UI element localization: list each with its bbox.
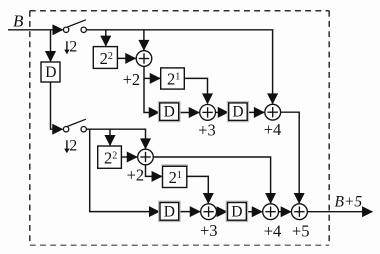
svg-text:D: D: [45, 64, 56, 81]
wire junction drop to delay D (left column): [50, 30, 52, 61]
svg-text:D: D: [164, 204, 175, 221]
svg-text:B+5: B+5: [335, 193, 363, 210]
svg-text:D: D: [232, 104, 243, 121]
dashed boundary box: [30, 11, 329, 245]
block 2^2 (lower): [98, 146, 122, 168]
label downsample 2 (bottom): [64, 138, 77, 155]
label downsample 2 (top): [64, 39, 77, 56]
wire 2^1 output right and down into adder +3 (row 1): [184, 78, 207, 103]
wire adder +3 to D (bottom): [217, 211, 227, 213]
wire 2^2 output to adder +2 (upper): [117, 57, 135, 59]
wire long drop from S2 line down to bottom D row: [90, 129, 159, 211]
wire D to adder +4 (row 1): [247, 111, 264, 113]
adder +2 (upper): [136, 51, 152, 67]
wire output B+5: [307, 211, 372, 213]
wire adder +4 to adder +5 (bottom): [279, 211, 291, 213]
wire adder +2 (lower) output down into block 2^1 (lower): [146, 165, 162, 177]
svg-text:D: D: [164, 104, 175, 121]
adder +4 (bottom row): [263, 204, 279, 220]
block 2^1 (lower): [161, 165, 188, 188]
block 2^1 (upper): [161, 68, 185, 89]
adder +3 (row 1): [200, 105, 216, 121]
wire drop into block 2^2 (upper): [105, 30, 107, 46]
delay D (bottom row right): [226, 201, 247, 221]
svg-text:2: 2: [69, 138, 77, 155]
adder +5 (bottom row): [292, 204, 308, 220]
svg-text:+3: +3: [200, 221, 218, 240]
delay D (bottom row left): [159, 201, 180, 221]
wire adder +2 output down to D row 1: [144, 66, 159, 112]
svg-text:D: D: [231, 204, 242, 221]
wire adder +4 output right and down into adder +5: [281, 112, 300, 203]
block 2^2 (upper): [93, 47, 117, 69]
adder +2 (lower): [138, 149, 154, 165]
wire 2^2 output to adder +2 (lower): [121, 156, 136, 158]
adder +3 (bottom row): [201, 204, 217, 220]
svg-text:+2: +2: [127, 166, 145, 185]
svg-text:+3: +3: [198, 120, 216, 139]
wire delay D output down to switch S2: [51, 82, 63, 129]
wire input B: [8, 29, 63, 31]
adder +4 (row 1): [265, 104, 281, 120]
svg-text:+5: +5: [292, 221, 310, 240]
switch S2 (downsampler, bottom): [63, 119, 86, 132]
wire drop into adder +2 (upper): [143, 30, 145, 50]
wire adder +2 (lower) output right and down into adder +4 (bottom): [153, 157, 270, 203]
svg-text:+4: +4: [264, 120, 282, 139]
delay D (row 1 right): [227, 102, 248, 122]
svg-text:+2: +2: [123, 70, 141, 89]
wire drop into block 2^2 (lower): [109, 129, 111, 145]
svg-text:+4: +4: [264, 221, 282, 240]
svg-text:2: 2: [69, 39, 77, 56]
wire bottom D to adder +3 (bottom): [179, 211, 200, 213]
wire branch into block 2^1 (upper): [144, 77, 160, 79]
wire D to adder +3 (row 1): [179, 112, 199, 114]
wire D to adder +4 (bottom): [246, 211, 262, 213]
wire after switch S2 to corner down into adder +2 (lower): [87, 129, 146, 148]
delay D (row 1 left): [158, 102, 180, 122]
wire adder +3 to D (row 1): [216, 111, 228, 113]
wire after switch S1 to top right corner down into adder +4: [87, 30, 273, 104]
svg-text:B: B: [13, 11, 24, 30]
switch S1 (downsampler, top): [63, 20, 86, 33]
wire 2^1 (lower) output right and down into adder +3 (bottom): [187, 176, 209, 203]
delay D (left column): [41, 62, 60, 82]
